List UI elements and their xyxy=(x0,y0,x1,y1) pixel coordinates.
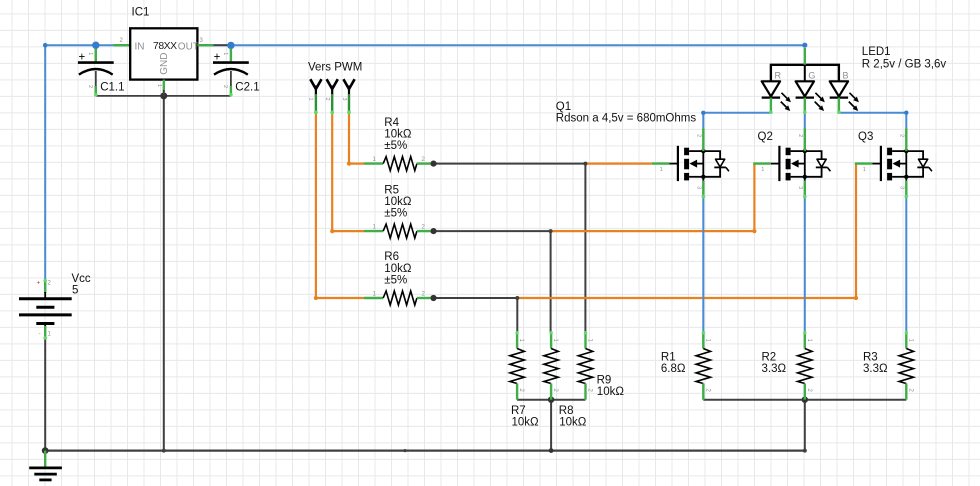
svg-text:10kΩ: 10kΩ xyxy=(559,416,587,428)
wire Q1 source to R1 (blue) xyxy=(702,198,704,333)
svg-text:2: 2 xyxy=(422,157,426,163)
svg-text:1: 1 xyxy=(156,84,162,87)
LED R (red) xyxy=(762,65,791,114)
resistor R2 xyxy=(798,331,812,400)
resistor R1 xyxy=(696,331,710,400)
svg-text:2: 2 xyxy=(695,134,701,137)
svg-text:1: 1 xyxy=(704,339,710,343)
wire Q3 drain to LED B (blue) xyxy=(839,113,906,129)
svg-text:1: 1 xyxy=(373,225,377,231)
node pulldown ground tie xyxy=(549,448,554,453)
node ground bus bend 1 xyxy=(162,449,166,453)
svg-text:Q1: Q1 xyxy=(556,101,571,113)
wire PWM pin 3 to R4 (orange) xyxy=(349,113,365,164)
svg-text:3: 3 xyxy=(200,38,204,44)
svg-text:2: 2 xyxy=(87,85,93,88)
wire Vcc top bus (blue) xyxy=(45,44,805,46)
wire PWM pin 1 to R6 (orange) xyxy=(316,113,365,298)
LED G (green) xyxy=(796,65,825,114)
wire R7-R9 bottom bus xyxy=(517,399,585,401)
svg-text:2: 2 xyxy=(797,134,803,137)
svg-text:1: 1 xyxy=(863,167,866,173)
node pulldown bus junction xyxy=(548,397,554,403)
svg-text:+: + xyxy=(37,279,41,286)
resistor R9 xyxy=(578,331,592,400)
resistor R3 xyxy=(899,331,913,400)
LED G anode stub (green) xyxy=(804,48,806,65)
node source ground corner xyxy=(803,449,807,453)
svg-text:2: 2 xyxy=(898,134,904,137)
svg-text:R2: R2 xyxy=(762,351,777,363)
svg-text:Vcc: Vcc xyxy=(72,273,91,285)
node LED G Vcc junction xyxy=(802,43,807,48)
capacitor C1.1 xyxy=(78,49,114,97)
svg-text:2: 2 xyxy=(587,389,593,393)
node Q3 drain corner xyxy=(904,111,908,115)
svg-text:1: 1 xyxy=(587,339,593,343)
node PWM bend pin2 xyxy=(330,229,334,233)
svg-text:G: G xyxy=(808,70,815,80)
node R6 output junction xyxy=(430,295,436,301)
svg-text:2: 2 xyxy=(324,98,330,101)
node C2.1 / OUT junction xyxy=(227,42,234,49)
svg-text:R5: R5 xyxy=(384,184,399,196)
wire R8 pulldown column xyxy=(550,231,552,332)
transistor Q3 (N-MOSFET) xyxy=(855,128,932,198)
svg-text:R1: R1 xyxy=(661,351,676,363)
svg-text:2: 2 xyxy=(806,389,812,393)
node Q1 drain corner xyxy=(701,111,705,115)
svg-text:1: 1 xyxy=(806,339,812,343)
svg-text:10kΩ: 10kΩ xyxy=(597,386,625,398)
node ground bus bend 2 xyxy=(403,449,406,452)
transistor Q2 (N-MOSFET) xyxy=(753,128,830,198)
svg-text:1: 1 xyxy=(660,167,663,173)
LED anode bus xyxy=(771,65,839,82)
wire Q2 drain to LED G (blue) xyxy=(804,113,806,128)
svg-text:3: 3 xyxy=(695,186,701,189)
svg-text:R3: R3 xyxy=(863,351,878,363)
svg-text:LED1: LED1 xyxy=(862,46,891,58)
svg-text:10kΩ: 10kΩ xyxy=(384,129,412,141)
wire pulldown ground drop xyxy=(550,400,552,451)
resistor R7 xyxy=(510,331,524,400)
wire ground bus xyxy=(45,450,805,452)
svg-text:2: 2 xyxy=(422,225,426,231)
wire C1.1/C2.1 ground link xyxy=(96,95,231,97)
svg-text:78XX: 78XX xyxy=(153,41,177,52)
svg-text:Rdson a 4,5v = 680mOhms: Rdson a 4,5v = 680mOhms xyxy=(556,113,697,125)
wire R4 out to R9 tap (dark) xyxy=(434,163,586,165)
wire OUT-to-junction jumper xyxy=(213,44,231,46)
svg-text:±5%: ±5% xyxy=(384,275,407,287)
resistor R5 xyxy=(364,224,430,238)
svg-text:Q3: Q3 xyxy=(858,131,873,143)
connector pin 3 (Vers PWM) xyxy=(341,79,355,114)
svg-text:1: 1 xyxy=(373,157,377,163)
svg-text:2: 2 xyxy=(120,38,124,44)
svg-text:2: 2 xyxy=(552,389,558,393)
node R9 tap xyxy=(583,162,587,166)
connector pin 1 (Vers PWM) xyxy=(308,79,322,114)
svg-text:±5%: ±5% xyxy=(384,208,407,220)
svg-text:1: 1 xyxy=(907,339,913,343)
wire Q1 gate feed (orange) xyxy=(585,163,651,165)
wire Q3 source to R3 (blue) xyxy=(905,198,907,333)
wire battery negative drop xyxy=(44,339,46,451)
wire Q2 source to R2 (blue) xyxy=(804,198,806,333)
svg-text:R8: R8 xyxy=(559,405,574,417)
svg-text:OUT: OUT xyxy=(178,41,199,52)
svg-text:2: 2 xyxy=(907,389,913,393)
svg-text:+: + xyxy=(214,52,221,64)
wire Q2 gate feed (orange) xyxy=(551,164,755,232)
svg-text:3: 3 xyxy=(797,186,803,189)
resistor R6 xyxy=(364,291,430,305)
svg-text:1: 1 xyxy=(373,291,377,297)
svg-text:R9: R9 xyxy=(597,375,612,387)
LED B (blue) xyxy=(830,65,859,114)
node R4 output junction xyxy=(430,161,436,167)
svg-text:R: R xyxy=(775,70,782,80)
battery Vcc xyxy=(19,279,72,340)
svg-text:2: 2 xyxy=(422,291,426,297)
node Q3 gate bend xyxy=(854,296,858,300)
svg-text:+: + xyxy=(79,52,86,64)
wire R6 out to R7 tap (dark) xyxy=(434,297,518,299)
svg-text:10kΩ: 10kΩ xyxy=(384,196,412,208)
transistor Q1 (N-MOSFET) xyxy=(652,128,729,198)
node battery ground junction xyxy=(42,447,49,454)
svg-text:1: 1 xyxy=(552,339,558,343)
svg-text:R7: R7 xyxy=(511,405,526,417)
svg-text:2: 2 xyxy=(704,389,710,393)
node Vcc corner above battery xyxy=(43,43,48,48)
wire R9 pulldown column xyxy=(584,164,586,333)
svg-text:10kΩ: 10kΩ xyxy=(512,416,540,428)
regulator U IC1 (78XX) xyxy=(114,28,214,96)
node R7 tap xyxy=(515,296,519,300)
svg-text:1: 1 xyxy=(87,52,93,55)
svg-text:-: - xyxy=(39,330,41,337)
node Q2 gate bend xyxy=(752,229,756,233)
wire battery positive riser (blue) xyxy=(44,45,46,280)
svg-text:3: 3 xyxy=(898,186,904,189)
wire Q1 drain to LED R (blue) xyxy=(703,113,771,129)
ground xyxy=(29,451,62,480)
node PWM bend pin3 xyxy=(347,162,351,166)
svg-text:IC1: IC1 xyxy=(132,7,150,19)
wire R1-R3 bottom bus xyxy=(703,399,906,401)
wire Q3 gate feed (orange) xyxy=(517,164,856,298)
svg-text:1: 1 xyxy=(222,52,228,55)
node R5 output junction xyxy=(430,228,436,234)
node source bus junction xyxy=(802,397,808,403)
svg-text:3.3Ω: 3.3Ω xyxy=(762,363,787,375)
svg-text:R 2,5v / GB 3,6v: R 2,5v / GB 3,6v xyxy=(862,58,947,70)
svg-text:GND: GND xyxy=(159,53,170,75)
svg-text:10kΩ: 10kΩ xyxy=(384,263,412,275)
resistor R4 xyxy=(364,157,430,171)
svg-text:2: 2 xyxy=(518,389,524,393)
svg-text:IN: IN xyxy=(135,41,145,52)
svg-text:1: 1 xyxy=(761,167,764,173)
svg-text:1: 1 xyxy=(48,331,52,337)
svg-text:Vers PWM: Vers PWM xyxy=(308,62,362,74)
wire source resistors ground drop xyxy=(804,400,806,451)
wire regulator GND drop xyxy=(163,96,165,451)
wire R5 out to R8 tap (dark) xyxy=(434,230,551,232)
svg-text:2: 2 xyxy=(48,280,52,286)
resistor R8 xyxy=(544,331,558,400)
svg-text:5: 5 xyxy=(72,285,78,297)
wire PWM pin 2 to R5 (orange) xyxy=(332,113,364,231)
svg-text:B: B xyxy=(843,70,849,80)
svg-text:R4: R4 xyxy=(384,117,399,129)
svg-text:6.8Ω: 6.8Ω xyxy=(661,363,686,375)
svg-text:3: 3 xyxy=(341,98,347,101)
node PWM bend pin1 xyxy=(314,296,318,300)
svg-text:Q2: Q2 xyxy=(758,131,773,143)
svg-text:3.3Ω: 3.3Ω xyxy=(863,363,888,375)
svg-text:1: 1 xyxy=(308,98,314,101)
capacitor C2.1 xyxy=(213,49,249,97)
svg-text:±5%: ±5% xyxy=(384,140,407,152)
svg-text:C2.1: C2.1 xyxy=(235,81,259,93)
svg-text:R6: R6 xyxy=(384,251,399,263)
svg-text:2: 2 xyxy=(222,85,228,88)
node C1.1 Vcc junction xyxy=(92,42,99,49)
connector pin 2 (Vers PWM) xyxy=(324,79,338,114)
node regulator GND junction xyxy=(160,92,167,99)
svg-text:C1.1: C1.1 xyxy=(100,81,124,93)
wire R7 pulldown column xyxy=(516,298,518,333)
svg-text:1: 1 xyxy=(518,339,524,343)
node R8 tap xyxy=(549,229,553,233)
